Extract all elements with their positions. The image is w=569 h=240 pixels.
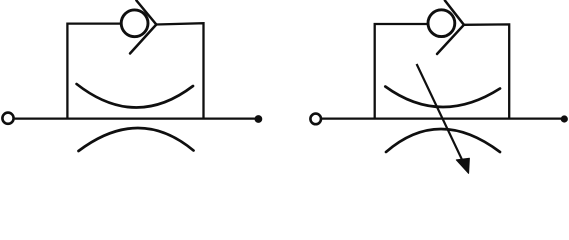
port P1 open terminal	[2, 113, 13, 124]
adjustment arrow A1 shaft	[417, 64, 464, 163]
check valve seat S1 lower arm	[130, 25, 156, 54]
adjustment arrow A1 head	[456, 158, 469, 173]
node N1 junction dot	[255, 115, 263, 123]
port P2 open terminal	[310, 114, 321, 125]
wire W1	[15, 117, 257, 119]
check valve seat S2 lower arm	[437, 25, 464, 54]
check valve ball B2	[428, 10, 455, 37]
check valve seat S1 upper arm	[136, 1, 156, 25]
throttle T2 upper arc	[385, 87, 500, 108]
throttle T2 lower arc	[386, 129, 500, 152]
valve V1 enclosure box	[67, 23, 203, 118]
throttle T1 upper arc	[77, 84, 193, 108]
check valve seat S2 upper arm	[445, 1, 464, 25]
wire W2	[322, 117, 562, 119]
valve V2 enclosure box	[375, 24, 510, 119]
node N2 junction dot	[561, 115, 568, 122]
throttle T1 lower arc	[79, 128, 194, 151]
check valve ball B1	[121, 10, 148, 37]
